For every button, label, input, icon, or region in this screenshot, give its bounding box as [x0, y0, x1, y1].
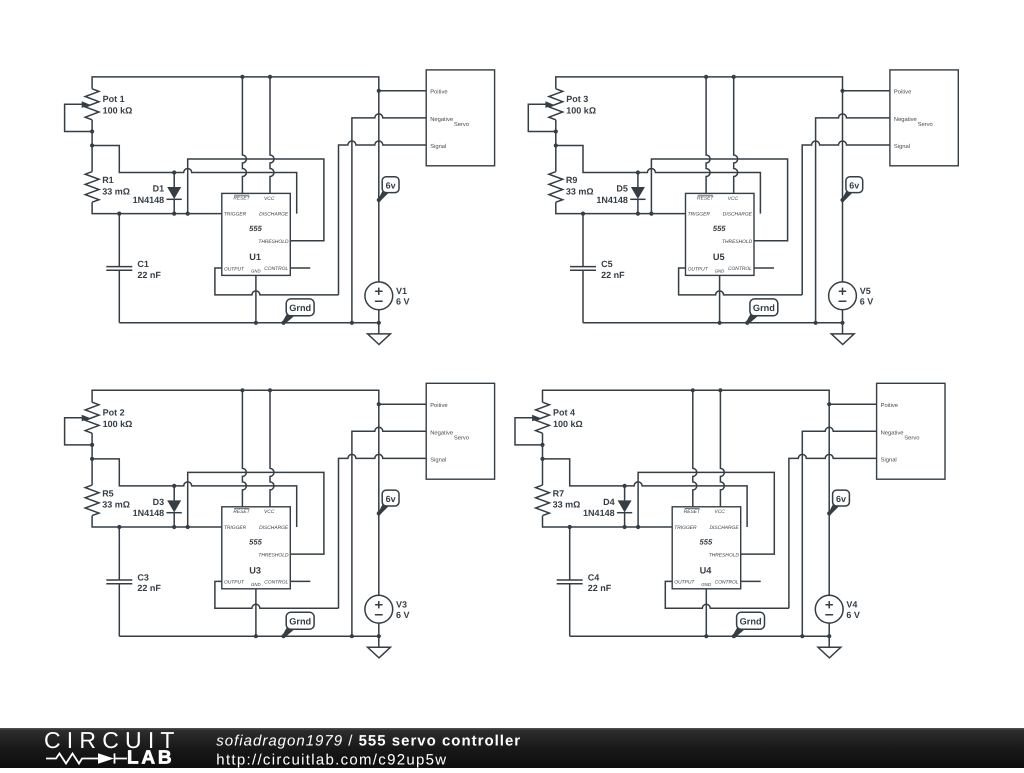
svg-text:Poitive: Poitive [430, 89, 447, 96]
wire: pot bottom to R top [555, 120, 557, 172]
potentiometer Pot 3 100 kΩ [545, 89, 596, 120]
svg-text:VCC: VCC [714, 509, 725, 515]
resistor R1 33 mΩ [85, 172, 130, 203]
wire: trigger rail (R bottom to 555 TRIGGER pin) [556, 202, 686, 213]
wire: pot/R node to DISCHARGE loop (with hop) [543, 459, 748, 527]
wire: servo positive lead [829, 403, 876, 405]
junction: trigger rail / diode cathode [623, 525, 627, 529]
svg-text:D3: D3 [153, 497, 165, 507]
svg-text:DISCHARGE: DISCHARGE [259, 525, 289, 531]
svg-text:Grnd: Grnd [740, 617, 762, 627]
net flag Grnd [283, 612, 315, 637]
potentiometer Pot 1 100 kΩ [82, 89, 133, 120]
capacitor C3 22 nF [106, 527, 161, 636]
wire: servo negative lead and column (hop over V+ column) [352, 114, 426, 323]
svg-text:D5: D5 [616, 184, 628, 194]
wire: Pot 4 wiper loop [515, 418, 543, 445]
svg-text:CONTROL: CONTROL [264, 579, 288, 585]
svg-text:6 V: 6 V [860, 297, 874, 307]
wire: ground rail (bottom) [119, 322, 379, 324]
svg-text:V4: V4 [846, 600, 857, 610]
wire: THRESHOLD loop [188, 159, 324, 241]
wire: GND pin column [719, 275, 721, 322]
junction: trigger rail / capacitor column [568, 525, 572, 529]
circuit block: U4 (Pot 4) [515, 383, 945, 658]
svg-text:100 kΩ: 100 kΩ [553, 419, 583, 429]
junction: wiper loop / pot column [554, 129, 558, 133]
svg-text:Poitive: Poitive [881, 402, 898, 409]
svg-text:TRIGGER: TRIGGER [224, 212, 247, 218]
junction: trigger rail / threshold branch [649, 212, 653, 216]
junction: V+ column / servo positive lead [827, 402, 831, 406]
junction: ground rail / GND column [704, 634, 708, 638]
svg-text:U1: U1 [249, 252, 261, 262]
voltage source V5 6 V [829, 282, 874, 310]
svg-text:THRESHOLD: THRESHOLD [709, 553, 740, 559]
junction: discharge rail / diode anode [172, 484, 176, 488]
wire: pot/R node to DISCHARGE loop (with hop) [92, 459, 297, 527]
svg-text:22 nF: 22 nF [137, 583, 161, 593]
svg-text:100 kΩ: 100 kΩ [103, 105, 133, 115]
svg-text:THRESHOLD: THRESHOLD [258, 553, 289, 559]
wire: VCC pin column (hops over two rails) [270, 77, 274, 193]
svg-text:Servo: Servo [918, 121, 933, 128]
555 timer U5 [686, 193, 755, 275]
svg-text:R1: R1 [102, 175, 114, 185]
circuit block: U1 (Pot 1) [65, 70, 495, 345]
ground symbol [831, 310, 854, 345]
junction: ground rail / GND column [254, 634, 258, 638]
junction: ground rail / negative column [814, 321, 818, 325]
wire: CONTROL stub [290, 580, 310, 582]
svg-text:6v: 6v [849, 181, 859, 191]
wire: servo signal lead and column (two hops) [789, 454, 877, 608]
junction: wiper loop / pot column [90, 443, 94, 447]
svg-text:Poitive: Poitive [894, 89, 911, 96]
resistor R9 33 mΩ [549, 172, 594, 203]
potentiometer Pot 2 100 kΩ [82, 402, 133, 433]
wire: ground rail (bottom) [570, 635, 829, 637]
junction: ground rail / GND column [254, 321, 258, 325]
svg-text:RESET: RESET [684, 509, 701, 515]
junction: 6v flag attach point [377, 198, 381, 202]
capacitor C4 22 nF [557, 527, 612, 636]
wire: pot/R node to DISCHARGE loop (with hop) [556, 146, 761, 214]
wire: servo signal lead and column (two hops) [339, 454, 427, 608]
junction: wiper loop / pot column [540, 443, 544, 447]
svg-text:OUTPUT: OUTPUT [674, 580, 695, 586]
svg-text:TRIGGER: TRIGGER [674, 525, 697, 531]
junction: ground rail / V- terminal [827, 634, 831, 638]
wire: Pot 1 wiper loop [65, 104, 93, 131]
svg-text:VCC: VCC [264, 196, 275, 202]
voltage source V3 6 V [365, 595, 410, 623]
svg-text:VCC: VCC [264, 509, 275, 515]
555 timer U4 [672, 507, 740, 589]
diode D5 1N4148 [596, 173, 645, 214]
junction: 6v flag attach point [840, 198, 844, 202]
junction: trigger rail / capacitor column [117, 525, 121, 529]
wire: GND pin column [255, 275, 257, 322]
wire: pot bottom to R top [91, 433, 93, 485]
svg-text:C1: C1 [137, 259, 149, 269]
svg-text:555: 555 [249, 537, 262, 546]
junction: ground rail / V- terminal [377, 321, 381, 325]
svg-text:6 V: 6 V [396, 297, 410, 307]
wire: servo negative lead and column (hop over V+ column) [802, 427, 876, 636]
wire: servo positive lead [843, 90, 890, 92]
svg-text:555: 555 [713, 224, 726, 233]
junction: trigger rail / threshold branch [186, 525, 190, 529]
svg-text:THRESHOLD: THRESHOLD [722, 239, 753, 245]
junction: V+ rail / VCC column [732, 75, 736, 79]
junction: V+ rail / VCC column [268, 75, 272, 79]
capacitor C5 22 nF [570, 214, 625, 323]
wire: servo positive lead [379, 90, 426, 92]
svg-text:22 nF: 22 nF [588, 583, 612, 593]
wire: servo negative lead and column (hop over V+ column) [816, 114, 890, 323]
CircuitLab logo: LAB wordmark [127, 748, 174, 769]
svg-text:RESET: RESET [233, 509, 250, 515]
wire: VCC pin column (hops over two rails) [270, 390, 274, 507]
svg-text:R9: R9 [566, 175, 578, 185]
wire: top V+ rail (Pot 3 top to servo positive column) [556, 77, 843, 282]
wire: OUTPUT loop to servo signal column (hop over GND column) [679, 268, 803, 295]
svg-text:D4: D4 [603, 497, 615, 507]
junction: ground rail / V- terminal [377, 634, 381, 638]
svg-text:CONTROL: CONTROL [728, 266, 752, 272]
svg-text:100 kΩ: 100 kΩ [566, 105, 596, 115]
wire: servo signal lead and column (two hops) [339, 141, 427, 295]
svg-text:Grnd: Grnd [289, 303, 311, 313]
junction: 6v flag attach point [377, 511, 381, 515]
wire: servo positive lead [379, 403, 426, 405]
svg-text:22 nF: 22 nF [137, 270, 161, 280]
svg-text:OUTPUT: OUTPUT [224, 580, 245, 586]
svg-text:Negative: Negative [894, 116, 917, 123]
wire: GND pin column [255, 589, 257, 636]
svg-text:LAB: LAB [127, 748, 174, 769]
svg-text:Negative: Negative [430, 429, 453, 436]
svg-text:Signal: Signal [881, 457, 897, 464]
wire: THRESHOLD loop [188, 472, 324, 554]
wire: THRESHOLD loop [638, 472, 774, 554]
svg-text:6 V: 6 V [846, 610, 860, 620]
servo connector box [890, 70, 958, 166]
net flag Grnd [733, 612, 765, 637]
net flag 6v [842, 177, 863, 202]
junction: ground rail / negative column [800, 634, 804, 638]
svg-text:V5: V5 [860, 286, 871, 296]
junction: pot-R node / discharge branch [540, 457, 544, 461]
wire: trigger rail (R bottom to 555 TRIGGER pin) [92, 516, 222, 527]
net flag 6v [378, 177, 399, 202]
wire: servo negative lead and column (hop over V+ column) [352, 427, 426, 636]
555 timer U3 [222, 507, 290, 589]
junction: ground rail / Grnd flag attach [745, 321, 749, 325]
svg-text:1N4148: 1N4148 [133, 508, 165, 518]
junction: V+ rail / VCC column [718, 388, 722, 392]
resistor R7 33 mΩ [536, 485, 581, 516]
resistor R5 33 mΩ [85, 485, 130, 516]
circuit block: U5 (Pot 3) [528, 70, 958, 345]
junction: discharge rail / diode anode [623, 484, 627, 488]
svg-text:100 kΩ: 100 kΩ [103, 419, 133, 429]
svg-text:Pot 2: Pot 2 [103, 408, 125, 418]
ground symbol [368, 623, 391, 658]
junction: trigger rail / diode cathode [636, 212, 640, 216]
junction: pot-R node / discharge branch [554, 143, 558, 147]
svg-text:OUTPUT: OUTPUT [688, 266, 709, 272]
junction: V+ rail / VCC column [268, 388, 272, 392]
potentiometer Pot 4 100 kΩ [532, 402, 583, 433]
wire: ground rail (bottom) [119, 635, 379, 637]
svg-text:D1: D1 [153, 184, 165, 194]
junction: ground rail / negative column [350, 321, 354, 325]
svg-text:RESET: RESET [233, 196, 250, 202]
junction: trigger rail / capacitor column [117, 212, 121, 216]
junction: 6v flag attach point [827, 511, 831, 515]
junction: ground rail / GND column [718, 321, 722, 325]
svg-text:GND: GND [715, 269, 725, 274]
svg-text:33 mΩ: 33 mΩ [102, 500, 130, 510]
junction: ground rail / Grnd flag attach [281, 634, 285, 638]
svg-text:1N4148: 1N4148 [133, 195, 165, 205]
junction: V+ rail / RESET column [704, 75, 708, 79]
svg-text:C5: C5 [601, 259, 613, 269]
svg-text:Servo: Servo [454, 121, 469, 128]
wire: pot bottom to R top [542, 433, 544, 485]
junction: trigger rail / threshold branch [186, 212, 190, 216]
svg-text:U3: U3 [249, 565, 261, 575]
svg-text:6v: 6v [386, 494, 396, 504]
junction: discharge rail / diode anode [636, 170, 640, 174]
wire: CONTROL stub [741, 580, 761, 582]
wire: VCC pin column (hops over two rails) [720, 390, 724, 507]
svg-text:CONTROL: CONTROL [264, 266, 288, 272]
ground symbol [818, 623, 841, 658]
wire: pot/R node to DISCHARGE loop (with hop) [92, 146, 297, 214]
wire: servo signal lead and column (two hops) [802, 141, 890, 295]
junction: trigger rail / capacitor column [581, 212, 585, 216]
wire: Pot 3 wiper loop [528, 104, 556, 131]
svg-text:TRIGGER: TRIGGER [688, 212, 711, 218]
svg-text:U4: U4 [700, 565, 713, 575]
svg-text:1N4148: 1N4148 [583, 508, 615, 518]
svg-text:Servo: Servo [454, 435, 469, 442]
net flag 6v [829, 490, 850, 515]
svg-text:1N4148: 1N4148 [596, 195, 628, 205]
wire: top V+ rail (Pot 1 top to servo positive column) [92, 77, 379, 282]
svg-text:sofiadragon1979 / 555 servo co: sofiadragon1979 / 555 servo controller [216, 733, 521, 750]
svg-text:DISCHARGE: DISCHARGE [259, 212, 289, 218]
servo connector box [426, 70, 494, 166]
wire: trigger rail (R bottom to 555 TRIGGER pin) [92, 202, 222, 213]
servo connector box [426, 383, 494, 479]
diode D4 1N4148 [583, 486, 632, 527]
net flag Grnd [283, 299, 315, 324]
servo connector box [877, 383, 945, 479]
wire: RESET pin column (hops over two rails) [706, 77, 710, 193]
junction: wiper loop / pot column [90, 129, 94, 133]
footer bar [0, 728, 1024, 768]
wire: OUTPUT loop to servo signal column (hop over GND column) [215, 581, 339, 608]
diode D1 1N4148 [133, 173, 182, 214]
wire: trigger rail (R bottom to 555 TRIGGER pin) [543, 516, 673, 527]
wire: CONTROL stub [290, 267, 310, 269]
wire: RESET pin column (hops over two rails) [693, 390, 697, 507]
net flag 6v [378, 490, 399, 515]
junction: trigger rail / threshold branch [636, 525, 640, 529]
wire: top V+ rail (Pot 4 top to servo positive column) [543, 390, 830, 595]
svg-text:Pot 4: Pot 4 [553, 408, 575, 418]
net flag Grnd [746, 299, 778, 324]
junction: ground rail / V- terminal [840, 321, 844, 325]
svg-text:33 mΩ: 33 mΩ [553, 500, 581, 510]
svg-text:555: 555 [249, 224, 262, 233]
svg-text:6 V: 6 V [396, 610, 410, 620]
wire: RESET pin column (hops over two rails) [242, 390, 246, 507]
wire: OUTPUT loop to servo signal column (hop over GND column) [215, 268, 339, 295]
svg-text:U5: U5 [713, 252, 725, 262]
svg-text:DISCHARGE: DISCHARGE [710, 525, 740, 531]
CircuitLab logo: CIRCUIT wordmark [44, 727, 181, 753]
svg-text:GND: GND [251, 582, 261, 587]
wire: RESET pin column (hops over two rails) [242, 77, 246, 193]
junction: ground rail / Grnd flag attach [281, 321, 285, 325]
wire: ground rail (bottom) [583, 322, 843, 324]
ground symbol [368, 310, 391, 345]
junction: pot-R node / discharge branch [90, 457, 94, 461]
junction: V+ column / servo positive lead [377, 402, 381, 406]
svg-text:VCC: VCC [728, 196, 739, 202]
svg-text:Signal: Signal [894, 143, 910, 150]
svg-text:Pot 1: Pot 1 [103, 94, 125, 104]
CircuitLab logo: resistor-diode glyph [46, 753, 127, 764]
555 timer U1 [222, 193, 290, 275]
svg-text:R7: R7 [553, 489, 565, 499]
voltage source V4 6 V [815, 595, 860, 623]
wire: GND pin column [705, 589, 707, 636]
svg-text:GND: GND [701, 582, 711, 587]
svg-text:V1: V1 [396, 286, 407, 296]
wire: pot bottom to R top [91, 120, 93, 172]
junction: V+ column / servo positive lead [377, 89, 381, 93]
svg-text:22 nF: 22 nF [601, 270, 625, 280]
svg-text:33 mΩ: 33 mΩ [566, 186, 594, 196]
svg-text:CONTROL: CONTROL [715, 579, 739, 585]
junction: V+ rail / RESET column [240, 75, 244, 79]
svg-text:Signal: Signal [430, 457, 446, 464]
svg-text:R5: R5 [102, 489, 114, 499]
svg-text:6v: 6v [386, 181, 396, 191]
junction: ground rail / negative column [350, 634, 354, 638]
svg-text:RESET: RESET [697, 196, 714, 202]
wire: Pot 2 wiper loop [65, 418, 93, 445]
svg-text:THRESHOLD: THRESHOLD [258, 239, 289, 245]
wire: top V+ rail (Pot 2 top to servo positive column) [92, 390, 379, 595]
svg-text:C4: C4 [588, 573, 600, 583]
junction: V+ column / servo positive lead [840, 89, 844, 93]
svg-text:Grnd: Grnd [753, 303, 775, 313]
junction: pot-R node / discharge branch [90, 143, 94, 147]
wire: VCC pin column (hops over two rails) [734, 77, 738, 193]
svg-text:33 mΩ: 33 mΩ [102, 186, 130, 196]
svg-text:Servo: Servo [904, 435, 919, 442]
wire: CONTROL stub [754, 267, 774, 269]
svg-text:Grnd: Grnd [289, 617, 311, 627]
svg-text:OUTPUT: OUTPUT [224, 266, 245, 272]
junction: trigger rail / diode cathode [172, 525, 176, 529]
footer url text [216, 752, 447, 769]
wire: OUTPUT loop to servo signal column (hop over GND column) [665, 581, 789, 608]
svg-text:V3: V3 [396, 600, 407, 610]
voltage source V1 6 V [365, 282, 410, 310]
svg-text:DISCHARGE: DISCHARGE [723, 212, 753, 218]
footer title text [216, 733, 521, 750]
diode D3 1N4148 [133, 486, 182, 527]
wire: THRESHOLD loop [651, 159, 787, 241]
svg-text:GND: GND [251, 269, 261, 274]
junction: V+ rail / RESET column [240, 388, 244, 392]
svg-text:555: 555 [700, 537, 713, 546]
svg-text:http://circuitlab.com/c92up5w: http://circuitlab.com/c92up5w [216, 752, 447, 768]
svg-text:Pot 3: Pot 3 [566, 94, 588, 104]
circuit block: U3 (Pot 2) [65, 383, 495, 658]
capacitor C1 22 nF [106, 214, 161, 323]
svg-text:6v: 6v [836, 494, 846, 504]
junction: ground rail / Grnd flag attach [732, 634, 736, 638]
svg-text:Signal: Signal [430, 143, 446, 150]
junction: V+ rail / RESET column [691, 388, 695, 392]
svg-text:TRIGGER: TRIGGER [224, 525, 247, 531]
junction: trigger rail / diode cathode [172, 212, 176, 216]
svg-text:Negative: Negative [881, 429, 904, 436]
svg-text:Poitive: Poitive [430, 402, 447, 409]
junction: discharge rail / diode anode [172, 170, 176, 174]
svg-text:C3: C3 [137, 573, 149, 583]
svg-text:Negative: Negative [430, 116, 453, 123]
